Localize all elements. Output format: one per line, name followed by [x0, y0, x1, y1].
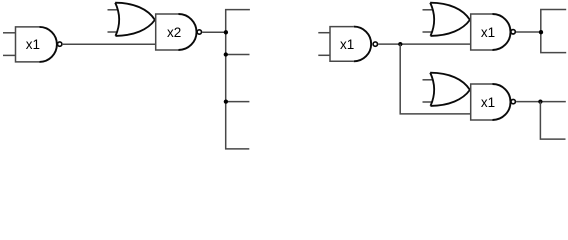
nand gate G8 x1 arc [493, 84, 511, 120]
junction dot upper right bus [539, 30, 543, 34]
left bus stub 2 [226, 54, 250, 56]
nand gate G4 x1 bubble [373, 42, 377, 46]
nand gate G3 x2 body [156, 14, 179, 50]
wire node N1 down to G8 [400, 44, 471, 114]
wire input C to G2 [108, 9, 118, 11]
lower right bus down stub [540, 102, 565, 140]
nand gate G6 x1 body [471, 14, 493, 50]
wire input G to G5 [423, 9, 433, 11]
wire input E to G4 [318, 32, 330, 34]
or gate G7 [430, 73, 470, 106]
nand gate G1 x1 body [16, 27, 40, 62]
junction dot left bus stub 2 [224, 52, 228, 56]
nand gate G1 x1 bubble [58, 42, 62, 46]
nand gate G4 x1 arc [354, 27, 371, 62]
nand gate G8 x1 bubble [511, 99, 515, 103]
wire input I to G7 [423, 79, 433, 81]
wire G3 output to left bus [202, 31, 226, 33]
nand gate G4 x1 body [330, 27, 354, 62]
junction dot left bus stub 3 [224, 99, 228, 103]
svg-text:x1: x1 [340, 37, 354, 52]
wire G6 output to upper right bus [516, 31, 541, 33]
svg-text:x2: x2 [167, 25, 181, 40]
svg-text:x1: x1 [481, 95, 495, 110]
wire input F to G4 [318, 54, 330, 56]
or gate G5 [430, 3, 470, 36]
nand gate G8 x1 body [471, 84, 493, 120]
or gate G2 [115, 3, 155, 36]
junction dot node N1 [398, 42, 402, 46]
wire input A to G1 [3, 32, 16, 34]
svg-text:x1: x1 [481, 25, 495, 40]
wire input H to G5 [423, 31, 433, 33]
upper right bus [541, 10, 566, 53]
nand gate G1 x1 arc [39, 27, 57, 62]
junction dot lower right bus [538, 99, 542, 103]
wire input D to G2 [108, 31, 118, 33]
wire G4 output to G6 [378, 43, 471, 45]
nand gate G3 x2 bubble [197, 30, 201, 34]
wire input J to G7 [423, 101, 433, 103]
nand gate G6 x1 arc [493, 14, 511, 50]
nand gate G3 x2 arc [179, 14, 197, 50]
wire G8 output to right edge [516, 101, 566, 103]
left bus vertical with top and bottom stubs [226, 10, 250, 149]
nand gate G6 x1 bubble [511, 30, 515, 34]
wire input B to G1 [3, 54, 16, 56]
svg-text:x1: x1 [26, 37, 40, 52]
junction dot left bus at output [224, 30, 228, 34]
left bus stub 3 [226, 101, 250, 103]
wire G1 output to G3 [63, 43, 156, 45]
